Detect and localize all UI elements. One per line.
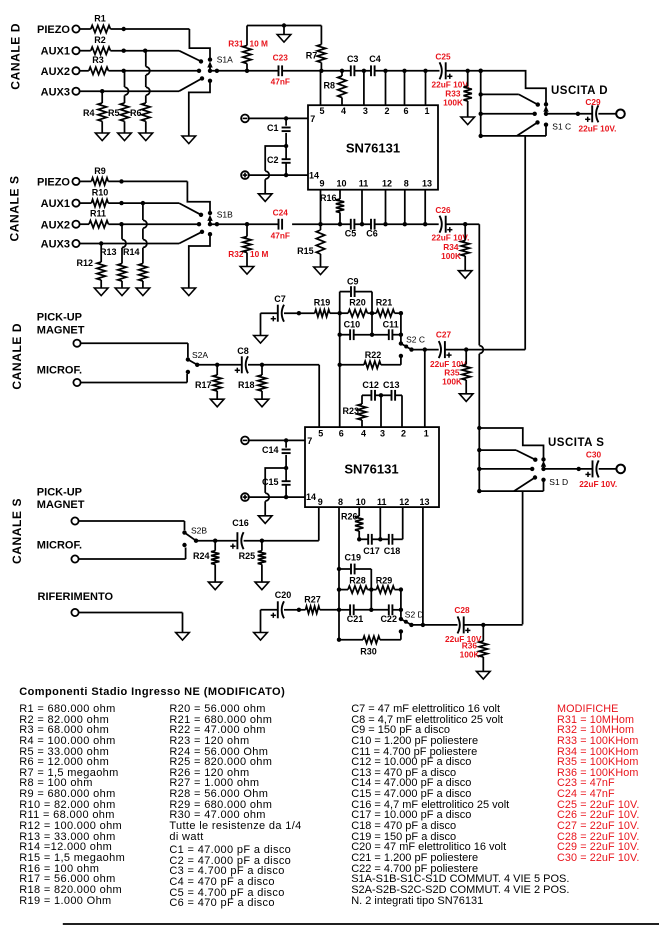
input terminal riferimento (71, 609, 78, 616)
node C1-C2 (284, 144, 288, 148)
svg-text:4: 4 (361, 429, 366, 439)
node C14-C15 (284, 466, 288, 470)
svg-text:R10: R10 (92, 188, 109, 198)
ground below R4 (95, 133, 109, 141)
svg-text:R32: R32 (228, 249, 244, 259)
svg-text:R19: R19 (314, 298, 331, 308)
ground below IC2 supply midpoint (258, 516, 272, 524)
svg-text:R3: R3 (92, 55, 104, 65)
svg-text:100K: 100K (443, 98, 463, 108)
wire pick-up D to S2A pos1 (81, 343, 188, 357)
ground below C7 (254, 336, 268, 344)
wire S1B pos5 to ground (189, 234, 210, 288)
resistor R32 10M (228, 224, 268, 266)
capacitor C21 (339, 604, 371, 624)
svg-text:R9: R9 (94, 166, 106, 176)
input terminal PIEZO (canale D) (37, 24, 80, 36)
op-amp IC2 SN76131 (305, 427, 439, 507)
wire C19 right column (369, 569, 373, 612)
svg-text:10 M: 10 M (250, 39, 269, 49)
resistor R1 (80, 14, 111, 33)
wire AUX3 row to S1A pos4 (80, 78, 202, 93)
resistor R5 (108, 71, 129, 133)
svg-text:1: 1 (424, 429, 429, 439)
resistor R3 (80, 55, 109, 74)
resistor R25 (239, 541, 267, 582)
svg-text:MAGNET: MAGNET (37, 499, 85, 511)
svg-text:2: 2 (384, 106, 389, 116)
svg-text:R12: R12 (76, 258, 93, 268)
svg-text:R29: R29 (376, 576, 393, 586)
switch S2C (399, 334, 425, 358)
IC1 pin numbers (309, 106, 432, 189)
wire C1/C2 midpoint to ground (265, 146, 286, 194)
capacitor C28 22uF (445, 605, 483, 644)
svg-text:C18: C18 (384, 546, 401, 556)
svg-text:C20: C20 (275, 590, 292, 600)
capacitor C9 (340, 277, 372, 298)
svg-text:5: 5 (318, 429, 323, 439)
svg-text:R15: R15 (297, 246, 314, 256)
svg-text:PICK-UP: PICK-UP (37, 487, 82, 499)
wire AUX2 row to S1A pos3 (108, 69, 199, 73)
label RIFERIMENTO (38, 591, 114, 603)
svg-text:C11: C11 (383, 320, 399, 330)
parts list title (19, 687, 285, 698)
parts list column 1 (R1-R19) (0, 0, 659, 1)
wire minus terminal to IC1 pin7 (249, 116, 308, 120)
svg-text:C5: C5 (345, 229, 357, 239)
svg-text:R25: R25 (239, 551, 256, 561)
negative supply terminal (IC1) (241, 115, 249, 123)
svg-text:11: 11 (359, 179, 369, 189)
input terminal AUX1 (canale D) (41, 46, 80, 58)
svg-text:R18: R18 (238, 380, 255, 390)
svg-text:C14: C14 (262, 445, 279, 455)
svg-text:R2: R2 (94, 35, 106, 45)
capacitor C7 47mF (261, 294, 286, 336)
wire C23 to IC1 pin5 rail (282, 69, 351, 73)
svg-text:PIEZO: PIEZO (37, 24, 70, 36)
wire plus terminal to IC1 pin14 (249, 173, 308, 177)
switch S1A (197, 55, 233, 84)
svg-text:10 M: 10 M (250, 249, 269, 259)
svg-text:9: 9 (318, 497, 323, 507)
wire C26 to long vertical (446, 222, 480, 226)
wire IC1 bottom rail (292, 222, 350, 226)
svg-text:C8: C8 (237, 346, 249, 356)
svg-text:100K: 100K (441, 251, 461, 261)
wire C9 right column (370, 292, 374, 337)
switch S1D (477, 426, 568, 494)
svg-text:22uF 10V.: 22uF 10V. (579, 479, 617, 489)
resistor R9 (80, 166, 109, 185)
svg-text:USCITA D: USCITA D (551, 85, 608, 97)
svg-text:8: 8 (404, 179, 409, 189)
svg-text:C30: C30 (586, 450, 602, 460)
wire R29/C22 right column to S2D pos1 (399, 590, 403, 617)
svg-text:R20: R20 (349, 298, 366, 308)
negative supply terminal (IC2) (241, 437, 249, 445)
ground on top rail (277, 35, 291, 43)
IC2 pin numbers (306, 429, 430, 508)
capacitor C18 (378, 507, 403, 556)
capacitor C4 (369, 54, 381, 76)
wire minus terminal to IC2 pin7 (249, 438, 305, 442)
wire IC2 pin6 column (338, 292, 342, 428)
svg-text:6: 6 (339, 429, 344, 439)
svg-text:12: 12 (382, 179, 392, 189)
capacitor C14 (262, 440, 291, 468)
resistor R27 (284, 594, 339, 613)
svg-text:R8: R8 (323, 81, 335, 91)
svg-text:S1A: S1A (217, 55, 233, 65)
capacitor C19 (339, 553, 371, 575)
wire S1C wiper to C29 (546, 112, 592, 116)
svg-text:1: 1 (424, 106, 429, 116)
ground below R24 (208, 582, 222, 590)
wire S1D pos5 to C28 output (522, 491, 524, 624)
svg-text:14: 14 (309, 171, 319, 181)
input terminal AUX2 (canale S) (41, 219, 80, 231)
svg-text:C21: C21 (347, 614, 364, 624)
switch S2D (399, 610, 424, 634)
svg-text:R27: R27 (304, 594, 321, 604)
svg-text:C24: C24 (273, 208, 289, 218)
ground below R17 (210, 399, 224, 407)
wire C4 to C25 (IC1 pins 2,6,1 rail) (375, 69, 440, 106)
input terminal PIEZO (canale S) (37, 176, 80, 188)
wire IC1 pin9 column (320, 190, 322, 225)
label CANALE D (pickup section) (10, 323, 24, 390)
wire C30 to output terminal S (599, 468, 617, 470)
input terminal AUX1 (canale S) (41, 198, 80, 210)
wire AUX1 row to S1A pos2 (110, 49, 201, 62)
svg-text:S1 D: S1 D (549, 477, 568, 487)
capacitor C8 4.7mF (235, 346, 249, 374)
svg-text:C10: C10 (344, 320, 361, 330)
resistor R24 (193, 541, 219, 582)
resistor R13 (100, 224, 126, 288)
capacitor C13 (379, 380, 402, 427)
ground below R5 (118, 133, 132, 141)
svg-text:C28: C28 (454, 605, 470, 615)
svg-text:C9: C9 (347, 277, 359, 287)
svg-text:C7: C7 (274, 294, 286, 304)
svg-text:22uF 10V.: 22uF 10V. (579, 124, 617, 134)
svg-text:AUX3: AUX3 (41, 86, 70, 98)
input terminal AUX2 (canale D) (41, 66, 80, 78)
wire pick-up S to S2B pos1 (79, 521, 185, 530)
svg-text:10: 10 (336, 179, 346, 189)
svg-text:12: 12 (399, 497, 409, 507)
resistor R34 100K (441, 224, 469, 271)
svg-text:100K: 100K (460, 649, 480, 659)
wire microf S to S2B pos2 (79, 548, 186, 560)
ground below R33 (461, 117, 475, 125)
svg-text:CANALE D: CANALE D (10, 323, 24, 390)
resistor R11 (80, 209, 109, 228)
capacitor C2 (267, 146, 291, 175)
wire S2C output to C27 and IC2 pin1 (412, 347, 439, 427)
wire IC2 pin8 column (337, 507, 341, 642)
svg-text:C15: C15 (262, 477, 279, 487)
svg-text:R30: R30 (360, 647, 377, 657)
separator line bottom (63, 923, 659, 925)
svg-text:C19: C19 (345, 553, 362, 563)
svg-text:AUX1: AUX1 (41, 46, 70, 58)
svg-text:PIEZO: PIEZO (37, 176, 70, 188)
parts list column 3 (C7-notes) (0, 0, 659, 1)
wire C16 to IC2 pin9 (244, 507, 319, 543)
wire IC1 pin5 (320, 71, 322, 105)
resistor R35 100K (442, 350, 470, 394)
ground below R34 (458, 271, 472, 279)
svg-text:MAGNET: MAGNET (37, 324, 85, 336)
svg-text:R24: R24 (193, 551, 210, 561)
wire microf D to S2A pos2 (81, 374, 188, 383)
svg-text:C4: C4 (369, 54, 381, 64)
svg-text:4: 4 (341, 106, 346, 116)
svg-text:C1: C1 (267, 123, 279, 133)
input terminal microf (canale D) (73, 379, 80, 386)
capacitor C11 (372, 320, 401, 341)
wire C25 to S1C bus (446, 69, 483, 73)
svg-text:C26: C26 (435, 205, 451, 215)
capacitor C15 (262, 468, 291, 497)
ground below R6 (139, 133, 153, 141)
wire AUX3-S row to S1B pos4 (80, 232, 202, 246)
wire riferimento to ground (79, 613, 183, 633)
svg-text:AUX2: AUX2 (41, 219, 70, 231)
switch S1C (479, 69, 572, 138)
svg-text:S2A: S2A (192, 350, 208, 360)
svg-text:C17: C17 (363, 546, 380, 556)
svg-text:47nF: 47nF (271, 77, 290, 87)
ground below C20 (254, 633, 268, 641)
label MICROF. (canale S) (37, 540, 82, 552)
svg-text:47nF: 47nF (271, 231, 290, 241)
svg-text:C27: C27 (436, 330, 452, 340)
svg-text:3: 3 (380, 429, 385, 439)
wire S1C pos5 to C27 output (524, 136, 526, 350)
resistor R10 (80, 188, 109, 207)
ground rail above R31/R7 (247, 23, 321, 34)
svg-text:R1: R1 (94, 14, 106, 24)
svg-text:S2 C: S2 C (406, 334, 425, 344)
svg-text:100K: 100K (442, 377, 462, 387)
output terminal USCITA D (616, 110, 625, 119)
wire C27 to S1C pos5 line (445, 347, 525, 351)
svg-text:R13: R13 (100, 247, 117, 257)
svg-text:R28: R28 (349, 576, 366, 586)
svg-text:C23: C23 (273, 53, 289, 63)
resistor R28 (339, 576, 371, 594)
ground below S1B (182, 288, 196, 296)
svg-text:7: 7 (310, 114, 315, 124)
ground below S1A (182, 136, 196, 144)
capacitor C20 47mF (261, 590, 292, 633)
resistor R16 (320, 190, 344, 225)
ground below R14 (136, 288, 150, 296)
svg-text:R4: R4 (83, 108, 95, 118)
resistor R33 100K (443, 71, 472, 117)
wire AUX2-S row to S1B pos3 (108, 222, 199, 226)
svg-text:S1 C: S1 C (552, 122, 571, 132)
capacitor C24 47nF (271, 208, 290, 241)
svg-text:14: 14 (306, 492, 316, 502)
label PICK-UP MAGNET (canale D) (37, 312, 85, 337)
capacitor C17 (359, 534, 380, 556)
svg-text:C12: C12 (362, 380, 379, 390)
ground below R12 (94, 288, 108, 296)
positive supply terminal (IC1) (241, 171, 249, 179)
capacitor C30 22uF (579, 450, 617, 490)
input terminal pick-up (canale S) (71, 517, 78, 524)
resistor R6 (130, 51, 150, 133)
svg-text:PICK-UP: PICK-UP (37, 312, 82, 324)
wire C3-C4 junction to IC1 pin3 (354, 69, 371, 106)
parts list column 4 MODIFICHE (red) (0, 0, 659, 1)
parts list column 2 (R20-C6) (0, 0, 659, 1)
wire C14/C15 midpoint to ground (265, 468, 286, 516)
resistor R21 (372, 298, 403, 317)
svg-text:C2: C2 (267, 155, 279, 165)
switch S2B (182, 526, 207, 548)
svg-text:R17: R17 (195, 380, 212, 390)
resistor R4 (83, 91, 106, 133)
input terminal pick-up (canale D) (73, 340, 80, 347)
capacitor C22 (371, 604, 401, 624)
svg-text:C16: C16 (232, 518, 249, 528)
svg-text:AUX3: AUX3 (41, 239, 70, 251)
svg-text:S1B: S1B (217, 210, 233, 220)
resistor R7 (306, 26, 326, 71)
svg-text:R16: R16 (320, 193, 337, 203)
wire C5-C6 junction to IC1 pin11 (354, 190, 371, 227)
input terminal AUX3 (canale S) (41, 239, 80, 251)
op-amp IC1 SN76131 (308, 105, 438, 190)
ground below R32 (240, 267, 254, 275)
svg-text:S2 D: S2 D (405, 610, 424, 620)
svg-text:C25: C25 (435, 52, 451, 62)
label CANALE S (pickup section) (10, 498, 24, 564)
resistor R20 (340, 298, 372, 317)
capacitor C25 22uF (432, 52, 470, 90)
svg-text:R7: R7 (306, 51, 318, 61)
svg-text:MICROF.: MICROF. (37, 365, 82, 377)
svg-text:6: 6 (403, 106, 408, 116)
svg-text:R22: R22 (365, 350, 382, 360)
svg-text:3: 3 (363, 106, 368, 116)
svg-text:USCITA S: USCITA S (548, 437, 604, 449)
wire S1B output to C24 (210, 222, 278, 226)
ground below R13 (115, 288, 129, 296)
positive supply terminal (IC2) (241, 493, 249, 501)
svg-text:CANALE S: CANALE S (10, 498, 24, 564)
capacitor C27 22uF (430, 330, 468, 370)
capacitor C16 4.7mF (230, 518, 248, 549)
capacitor C10 (340, 320, 372, 341)
resistor R30 (339, 633, 401, 657)
resistor R8 (323, 71, 346, 105)
resistor R17 (195, 365, 221, 399)
ground below R18 (255, 399, 269, 407)
wire C6 to C26 rail (375, 190, 439, 227)
svg-text:2: 2 (401, 429, 406, 439)
ground below R36 (477, 671, 491, 679)
capacitor C12 (362, 380, 381, 401)
svg-text:C13: C13 (383, 380, 400, 390)
switch S1B (197, 210, 233, 237)
svg-text:MICROF.: MICROF. (37, 540, 82, 552)
svg-text:SN76131: SN76131 (346, 141, 400, 156)
resistor R18 (238, 365, 266, 399)
svg-text:8: 8 (338, 497, 343, 507)
wire plus terminal to IC2 pin14 (249, 495, 305, 499)
capacitor C3 (347, 54, 359, 76)
wire C8 to IC2 pin5 (248, 363, 319, 428)
wire S2A output rail (197, 363, 242, 367)
resistor R36 100K (460, 625, 488, 672)
ground below IC1 supply midpoint (258, 194, 272, 202)
label USCITA S (548, 437, 604, 449)
wire C26 junction down to S1D bus (hops C27 rail) (479, 224, 483, 428)
capacitor C5 (345, 219, 357, 239)
label CANALE D (input section) (8, 23, 22, 90)
label MICROF. (canale D) (37, 365, 82, 377)
ground below R25 (255, 582, 269, 590)
svg-text:13: 13 (419, 497, 429, 507)
wire R21/C11 right column to S2C pos1 (399, 313, 403, 341)
svg-text:R21: R21 (376, 298, 393, 308)
svg-text:C6: C6 (366, 229, 378, 239)
wire S1A output to C23 (210, 69, 278, 73)
wire S1D wiper to C30 (544, 467, 593, 471)
wire PIEZO-S row to S1B pos1 (108, 179, 210, 211)
ground below riferimento (176, 633, 190, 641)
wire C28 to S1D pos5 line (464, 623, 523, 627)
resistor R26 (341, 507, 363, 541)
svg-text:10: 10 (356, 497, 366, 507)
resistor R15 (297, 224, 325, 267)
svg-text:CANALE S: CANALE S (7, 175, 21, 241)
svg-text:CANALE D: CANALE D (8, 23, 22, 90)
input terminal AUX3 (canale D) (41, 86, 80, 98)
capacitor C23 47nF (271, 53, 290, 87)
wire S1A pos5 to ground (189, 81, 210, 136)
svg-text:7: 7 (307, 436, 312, 446)
svg-text:AUX2: AUX2 (41, 66, 70, 78)
svg-text:C3: C3 (347, 54, 359, 64)
svg-text:5: 5 (319, 106, 324, 116)
svg-text:RIFERIMENTO: RIFERIMENTO (38, 591, 114, 603)
wire S2B output rail (196, 539, 237, 543)
wire PIEZO row to S1A pos1 (110, 27, 210, 58)
svg-text:AUX1: AUX1 (41, 198, 70, 210)
label PICK-UP MAGNET (canale S) (37, 487, 85, 512)
ground below R15 (314, 267, 328, 275)
wire S2D output to C28 and IC2 pin13 (411, 507, 457, 627)
resistor R31 10M (228, 26, 268, 71)
svg-text:SN76131: SN76131 (344, 462, 398, 477)
output terminal USCITA S (616, 465, 625, 474)
label USCITA D (551, 85, 608, 97)
capacitor C1 (267, 118, 291, 146)
wire AUX1-S row to S1B pos2 (108, 201, 201, 215)
svg-text:9: 9 (319, 179, 324, 189)
svg-text:R11: R11 (90, 209, 106, 219)
